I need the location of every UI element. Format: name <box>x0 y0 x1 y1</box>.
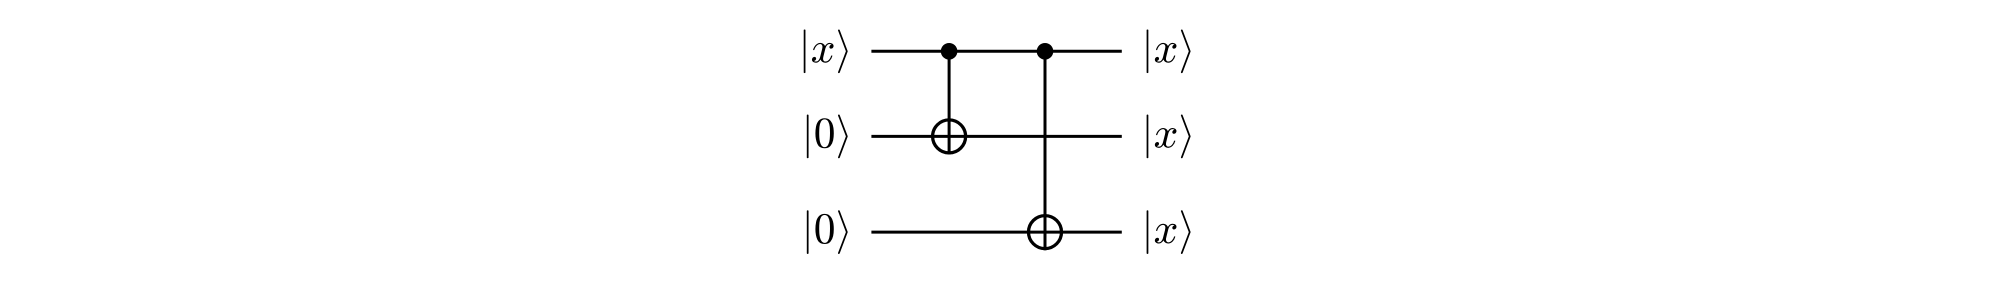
wire vertical link CNOT2 (control on q0 to target on q2) <box>1044 51 1047 250</box>
ket |0> label left of wire q1 <box>807 115 848 159</box>
wire q0 (top horizontal qubit wire) <box>871 50 1121 53</box>
ket |x> label left of wire q0 <box>804 29 848 73</box>
wire q2 (bottom horizontal qubit wire) <box>871 231 1121 234</box>
wire vertical link CNOT1 (control on q0 to target on q1) <box>948 51 951 154</box>
control dot CNOT2 on q0 <box>1037 43 1054 60</box>
ket |0> label left of wire q2 <box>807 210 848 254</box>
control dot CNOT1 on q0 <box>941 43 958 60</box>
CNOT target circle-plus on q2 <box>1029 216 1062 249</box>
CNOT target circle-plus on q1 <box>933 120 966 153</box>
ket |x> label right of wire q0 <box>1147 29 1191 73</box>
ket |x> label right of wire q2 <box>1147 210 1191 254</box>
wire q1 (middle horizontal qubit wire) <box>871 135 1121 138</box>
ket |x> label right of wire q1 <box>1147 115 1191 159</box>
